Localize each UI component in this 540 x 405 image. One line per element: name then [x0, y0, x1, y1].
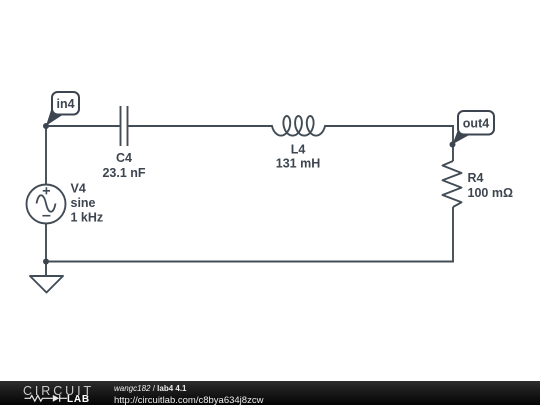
V4 plus sign [43, 187, 50, 194]
CircuitLab logo CIRCUIT wordmark [23, 384, 94, 398]
svg-text:L4: L4 [291, 143, 306, 157]
footer bar [0, 381, 540, 405]
wire bottom [46, 261, 453, 263]
footer title line [114, 384, 187, 393]
flag in4 tail [46, 106, 64, 126]
V4 sine wave [37, 195, 56, 212]
wire left vertical lower [45, 224, 47, 277]
logo wire resistor diode [22, 394, 94, 405]
svg-text:V4: V4 [71, 182, 86, 196]
wire inductor to top-right corner [325, 125, 453, 127]
wire top-left to capacitor [46, 125, 120, 127]
logo LAB text [67, 394, 90, 405]
capacitor C4 plate right [127, 106, 129, 146]
wire right vertical upper [452, 125, 454, 161]
resistor R4 zigzag [443, 161, 462, 207]
svg-text:C4: C4 [116, 151, 132, 165]
voltage source V4 circle [27, 185, 66, 224]
flag in4 bubble [52, 92, 79, 115]
svg-text:sine: sine [71, 196, 96, 210]
svg-text:out4: out4 [463, 117, 489, 131]
footer url line [114, 395, 263, 405]
wire left vertical upper [45, 126, 47, 185]
node dot bottom [43, 259, 49, 265]
svg-text:131 mH: 131 mH [276, 157, 320, 171]
svg-text:R4: R4 [468, 171, 484, 185]
node dot in4 [43, 123, 49, 129]
ground symbol [30, 276, 63, 293]
inductor L4 coil [272, 116, 325, 136]
svg-text:23.1 nF: 23.1 nF [102, 166, 145, 180]
wire capacitor to inductor [129, 125, 273, 127]
svg-text:100 mΩ: 100 mΩ [468, 186, 513, 200]
flag out4 tail [453, 129, 472, 145]
capacitor C4 plate left [120, 106, 122, 146]
V4 minus sign [42, 215, 50, 217]
flag out4 bubble [458, 111, 494, 135]
node dot out4 [450, 142, 456, 148]
svg-text:in4: in4 [56, 97, 74, 111]
wire right vertical lower [452, 207, 454, 263]
svg-text:1 kHz: 1 kHz [71, 211, 104, 225]
